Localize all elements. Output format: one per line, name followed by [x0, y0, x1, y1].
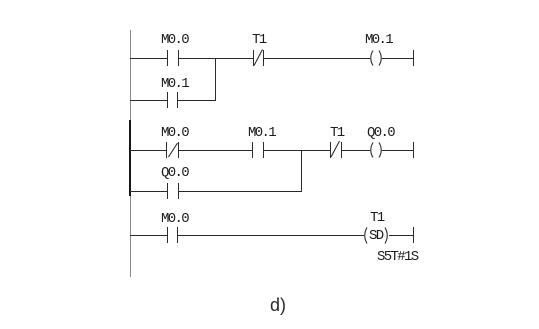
- right rail bar rung1: [413, 50, 414, 66]
- wire rung1 T1 to coil M0.1: [264, 58, 370, 59]
- contact M0.1 (NO) branch1: [167, 92, 168, 108]
- contact M0.0 (NC) rung2: [166, 142, 167, 158]
- wire rung3 M0.0 to timer coil: [178, 235, 364, 236]
- wire rung2 M0.1 to T1: [264, 150, 330, 151]
- branch1 wire rail to M0.1 contact: [130, 100, 167, 101]
- wire rung1 coil to right bar: [382, 58, 413, 59]
- wire rung1 rail to M0.0 contact: [130, 58, 167, 59]
- branch2 wire rail to Q0.0 contact: [130, 191, 167, 192]
- branch2 wire Q0.0 to junction: [179, 191, 302, 192]
- left power rail (thin): [130, 30, 131, 277]
- wire rung2 rail to M0.0 contact: [130, 150, 167, 151]
- contact T1 (NC) rung1: [253, 50, 254, 66]
- label M0.1 rung2: [248, 127, 275, 139]
- label M0.1 branch1: [161, 78, 188, 90]
- contact T1 (NC) rung2: [330, 142, 331, 158]
- junction wire rung1 down to branch: [215, 58, 216, 101]
- label T1 rung1: [252, 34, 266, 46]
- coil Q0.0 rung2: [368, 142, 384, 158]
- wire rung2 coil to right bar: [382, 150, 413, 151]
- value label S5T#1S: [377, 251, 418, 263]
- label M0.1 coil rung1: [365, 34, 392, 46]
- contact Q0.0 (NO) branch2: [167, 183, 168, 199]
- wire rung2 M0.0 to M0.1: [179, 150, 252, 151]
- label T1 timer rung3: [370, 212, 384, 224]
- right rail bar rung2: [413, 142, 414, 158]
- wire rung3 coil to right bar: [389, 235, 414, 236]
- contact M0.0 (NO) rung3: [167, 227, 168, 243]
- right rail bar rung3: [413, 227, 414, 243]
- label M0.0 rung1: [161, 34, 188, 46]
- junction wire rung2 down to branch2: [301, 150, 302, 192]
- label M0.0 rung2: [161, 127, 188, 139]
- contact M0.1 (NO) rung2: [252, 142, 253, 158]
- label M0.0 rung3: [161, 213, 188, 225]
- wire rung3 rail to M0.0 contact: [130, 235, 167, 236]
- label T1 rung2: [330, 127, 344, 139]
- coil M0.1 rung1: [368, 50, 384, 66]
- wire rung1 M0.0 to T1 contact: [179, 58, 253, 59]
- left power rail (thick segment, network 2): [129, 120, 131, 196]
- branch1 wire M0.1 to junction: [178, 100, 216, 101]
- contact M0.0 (NO) rung1: [167, 50, 168, 66]
- wire rung2 T1 to coil: [341, 150, 370, 151]
- caption d): [270, 295, 286, 316]
- label Q0.0 branch2: [161, 167, 188, 179]
- label Q0.0 coil rung2: [367, 127, 394, 139]
- timer coil T1 (SD) rung3: [362, 227, 390, 244]
